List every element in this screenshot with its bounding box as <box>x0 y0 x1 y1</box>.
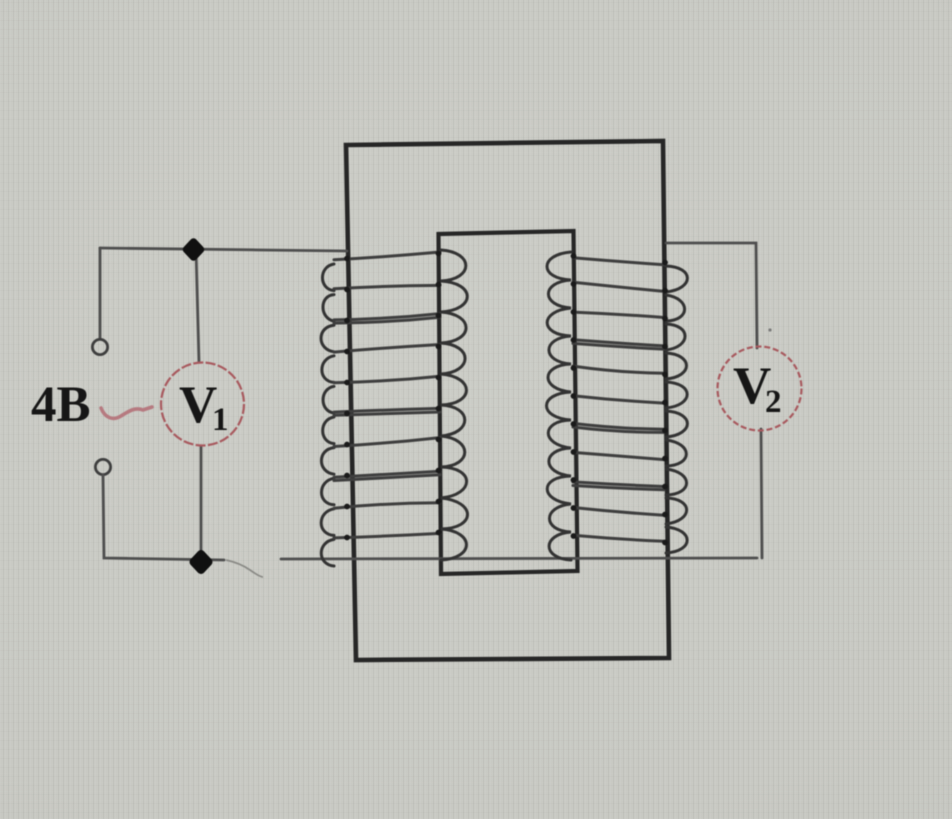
junction node: top (primary top rail) <box>187 242 201 257</box>
voltmeter V2 circle <box>718 347 802 431</box>
tiny speck above V2 <box>768 328 771 331</box>
voltmeter V1 circle <box>161 363 244 446</box>
primary winding: outer-side scallops <box>321 264 334 570</box>
transformer core outer boundary <box>346 141 669 660</box>
terminal: upper open circle <box>92 339 107 354</box>
primary winding: crossing turns <box>334 252 440 260</box>
terminal: lower open circle <box>95 459 110 474</box>
wire: V2 lower vertical <box>761 429 762 558</box>
transformer core inner window <box>439 231 578 574</box>
svg-text:4В: 4В <box>31 377 91 433</box>
winding-to-core crossing knots <box>344 251 668 546</box>
wire: top-left horizontal from source loop to primary coil <box>100 248 347 251</box>
junction node: bottom (primary bottom rail) <box>194 554 209 570</box>
secondary winding: crossing turns <box>573 258 664 265</box>
wire: left vertical upper segment <box>99 248 102 339</box>
wire: left vertical lower segment and bottom run to junction <box>103 475 224 560</box>
secondary winding: inner-side scallops <box>546 252 571 560</box>
wire: top-right horizontal from secondary coil down to V2 <box>666 243 757 348</box>
AC tilde symbol <box>101 407 152 418</box>
wire: V1 branch vertical lower <box>200 446 203 556</box>
stray pen scratch near bottom junction <box>226 560 263 577</box>
wire: bottom horizontal across to V2 loop <box>281 558 757 559</box>
svg-text:2: 2 <box>765 384 782 420</box>
svg-text:1: 1 <box>212 402 229 438</box>
wire: V1 branch vertical upper <box>196 250 199 362</box>
secondary winding: outer-side scallops <box>666 266 687 556</box>
primary winding: inner-side scallops <box>441 250 467 560</box>
